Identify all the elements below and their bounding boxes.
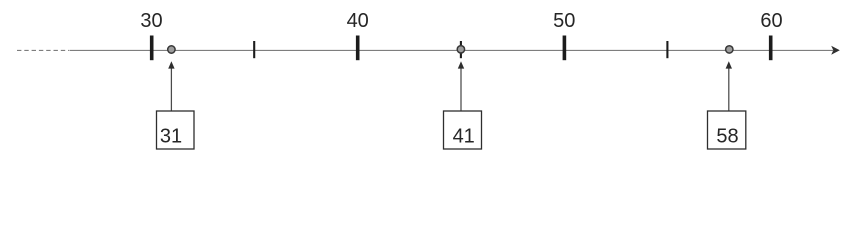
svg-text:40: 40 xyxy=(347,10,369,32)
major tick 40 xyxy=(356,36,360,61)
pointer arrow stem 41 xyxy=(460,68,462,111)
major tick 60 xyxy=(769,36,773,61)
pointer arrowhead 31 xyxy=(168,61,174,68)
point dot for 41 xyxy=(457,46,464,53)
svg-text:50: 50 xyxy=(553,10,575,32)
svg-text:31: 31 xyxy=(160,126,182,148)
minor tick 35 xyxy=(253,41,255,58)
value box 31 xyxy=(157,111,195,149)
pointer arrow stem 58 xyxy=(728,68,730,111)
value box 58 xyxy=(708,111,746,149)
pointer arrow stem 31 xyxy=(170,68,172,111)
number line: dashed left segment xyxy=(17,49,69,51)
point dot for 31 xyxy=(168,46,175,53)
major tick 30 xyxy=(150,36,154,61)
pointer arrowhead 58 xyxy=(726,61,732,68)
value box 41 xyxy=(444,111,482,149)
svg-text:58: 58 xyxy=(716,126,738,148)
number line: main horizontal axis xyxy=(70,49,834,51)
pointer arrowhead 41 xyxy=(458,61,464,68)
minor tick 45 xyxy=(460,41,462,58)
svg-text:30: 30 xyxy=(140,10,162,32)
minor tick 55 xyxy=(666,41,668,58)
svg-text:41: 41 xyxy=(453,126,475,148)
major tick 50 xyxy=(563,36,567,61)
point dot for 58 xyxy=(726,46,733,53)
number line: right arrowhead xyxy=(831,46,840,55)
svg-text:60: 60 xyxy=(760,10,782,32)
